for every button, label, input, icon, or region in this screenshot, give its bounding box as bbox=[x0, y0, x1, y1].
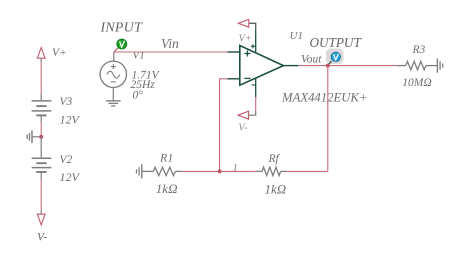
node OUTPUT probe bbox=[326, 49, 344, 66]
battery V3 bbox=[32, 101, 52, 116]
svg-text:V-: V- bbox=[238, 123, 248, 134]
resistor Rf bbox=[256, 167, 287, 175]
power symbol V- (op-amp bottom) bbox=[238, 111, 249, 119]
svg-text:V2: V2 bbox=[60, 154, 73, 166]
wire R1 to node 1 bbox=[182, 170, 220, 172]
wire battery V3 to mid junction bbox=[40, 115, 42, 136]
op-amp U1 bbox=[228, 46, 299, 86]
ground (left rail mid) bbox=[27, 130, 41, 143]
wire V+ arrow to battery V3 bbox=[40, 58, 42, 101]
wire op-amp minus input to node 1 bbox=[220, 79, 228, 172]
wire node 1 to Rf bbox=[220, 170, 256, 172]
wire output row bbox=[298, 65, 396, 67]
svg-text:V+: V+ bbox=[52, 47, 67, 59]
svg-text:R3: R3 bbox=[412, 44, 426, 56]
wire feedback vertical bbox=[327, 66, 329, 172]
svg-text:Rf: Rf bbox=[268, 153, 281, 165]
wire mid junction to battery V2 bbox=[40, 137, 42, 159]
power pin V+ (op-amp top), pin 5 marker + bbox=[249, 23, 256, 53]
ground (R1) bbox=[137, 164, 142, 178]
svg-text:U1: U1 bbox=[290, 30, 303, 42]
svg-text:12V: 12V bbox=[60, 170, 81, 184]
resistor R1 bbox=[142, 167, 182, 175]
node junction (node 1) bbox=[218, 169, 222, 173]
svg-text:1kΩ: 1kΩ bbox=[265, 182, 287, 197]
wire Rf to feedback corner bbox=[286, 170, 327, 172]
AC source V1 bbox=[100, 61, 126, 87]
svg-text:12V: 12V bbox=[60, 113, 81, 127]
svg-text:R1: R1 bbox=[159, 151, 173, 165]
node INPUT probe bbox=[114, 39, 127, 52]
svg-text:Vout: Vout bbox=[301, 54, 322, 66]
svg-text:10MΩ: 10MΩ bbox=[402, 77, 431, 89]
svg-text:Vin: Vin bbox=[161, 36, 179, 51]
resistor R3 bbox=[397, 61, 438, 69]
wire Vin: source top to op-amp plus input bbox=[114, 52, 228, 61]
wire source bottom to ground bbox=[112, 88, 114, 101]
node junction (output) bbox=[326, 64, 330, 68]
power symbol V+ (op-amp top) bbox=[238, 19, 249, 27]
svg-text:V3: V3 bbox=[60, 96, 73, 108]
svg-text:V-: V- bbox=[37, 232, 47, 244]
ground (R3) bbox=[437, 59, 442, 73]
svg-text:INPUT: INPUT bbox=[100, 21, 143, 36]
node junction (left rail mid) bbox=[39, 135, 43, 139]
power symbol V- (left rail) bbox=[37, 214, 45, 225]
svg-text:0°: 0° bbox=[133, 90, 144, 102]
wire battery V2 to V- arrow bbox=[40, 172, 42, 214]
ground (source V1) bbox=[106, 101, 121, 106]
svg-text:1kΩ: 1kΩ bbox=[156, 181, 178, 196]
svg-text:V+: V+ bbox=[239, 34, 253, 45]
svg-text:OUTPUT: OUTPUT bbox=[310, 35, 363, 50]
power pin V- (op-amp bottom), pin marker - bbox=[249, 78, 256, 115]
svg-text:MAX4412EUK+: MAX4412EUK+ bbox=[281, 90, 367, 104]
power symbol V+ (left rail) bbox=[37, 48, 45, 59]
battery V2 bbox=[32, 158, 52, 172]
